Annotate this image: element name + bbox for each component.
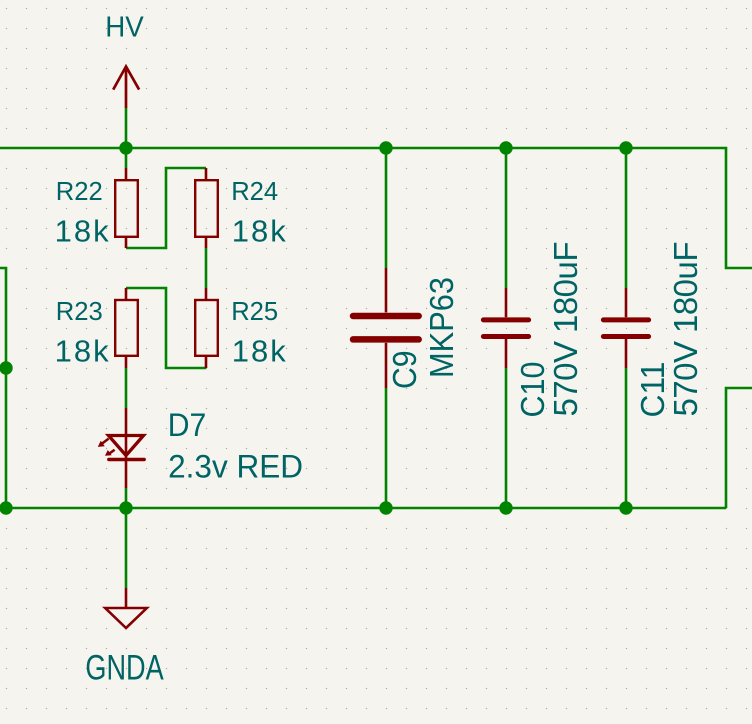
wire bus to GNDA <box>125 508 128 588</box>
svg-text:18k: 18k <box>55 334 110 369</box>
svg-text:18k: 18k <box>232 334 286 369</box>
svg-text:2.3v RED: 2.3v RED <box>168 448 303 484</box>
junction left mid <box>0 361 13 374</box>
svg-text:570V 180uF: 570V 180uF <box>547 242 584 417</box>
wire R23 top to R25 bottom <box>126 288 206 368</box>
wire R22 bottom to R24 top <box>126 168 206 248</box>
wire HV symbol to bus <box>125 108 128 148</box>
junction bottom at LED column <box>119 501 132 514</box>
capacitor C10 <box>483 288 528 368</box>
LED D7 <box>102 408 144 488</box>
svg-text:GNDA: GNDA <box>85 649 164 688</box>
wire C11 bottom <box>625 368 628 508</box>
resistor R23 <box>115 288 138 368</box>
wire right lower branch <box>726 388 752 508</box>
wire left branch <box>0 268 6 508</box>
svg-text:HV: HV <box>105 12 144 44</box>
wire top HV bus <box>0 148 752 268</box>
junction top at C9 <box>379 141 392 154</box>
svg-text:C10: C10 <box>514 362 551 418</box>
wire R24 bottom to R25 top <box>205 248 208 288</box>
wire HV to R22 <box>125 148 128 168</box>
ground symbol GNDA <box>105 588 147 628</box>
wire C10 bottom <box>505 368 508 508</box>
wire C11 top <box>625 148 628 288</box>
svg-text:C9: C9 <box>386 351 423 390</box>
wire R23 bottom to LED <box>125 368 128 408</box>
svg-text:18k: 18k <box>55 214 110 249</box>
capacitor C9 <box>353 268 419 388</box>
wire LED to bus <box>125 488 128 508</box>
junction bottom left <box>0 501 13 514</box>
wire C9 top <box>385 148 388 268</box>
wire C10 top <box>505 148 508 288</box>
resistor R22 <box>115 168 138 248</box>
svg-text:MKP63: MKP63 <box>423 277 460 378</box>
resistor R25 <box>195 288 218 368</box>
junction top at C11 <box>619 141 632 154</box>
svg-text:R23: R23 <box>56 296 103 326</box>
junction top at R22 column <box>119 141 132 154</box>
svg-text:18k: 18k <box>232 214 286 249</box>
capacitor C11 <box>603 288 648 368</box>
svg-text:570V 180uF: 570V 180uF <box>667 242 704 417</box>
wire bottom GND bus <box>6 507 726 510</box>
wire C9 bottom <box>385 388 388 508</box>
svg-text:C11: C11 <box>634 362 671 418</box>
svg-text:D7: D7 <box>168 407 207 443</box>
junction top at C10 <box>499 141 512 154</box>
junction bottom at C9 <box>379 501 392 514</box>
power symbol HV <box>113 67 139 109</box>
svg-text:R25: R25 <box>231 296 278 326</box>
junction bottom at C10 <box>499 501 512 514</box>
resistor R24 <box>195 168 218 248</box>
svg-text:R24: R24 <box>231 176 278 206</box>
svg-text:R22: R22 <box>56 176 103 206</box>
junction bottom at C11 <box>619 501 632 514</box>
